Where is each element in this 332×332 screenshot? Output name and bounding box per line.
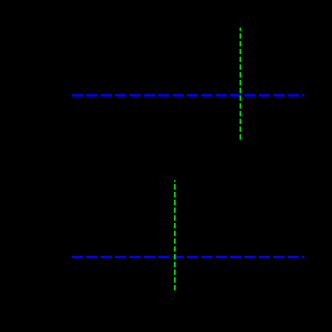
top panel blue dashed horizontal line <box>72 94 304 96</box>
bottom panel blue dashed horizontal line <box>72 256 304 258</box>
bottom panel green dashed vertical line <box>174 180 176 290</box>
top panel green dashed vertical line <box>239 28 241 140</box>
